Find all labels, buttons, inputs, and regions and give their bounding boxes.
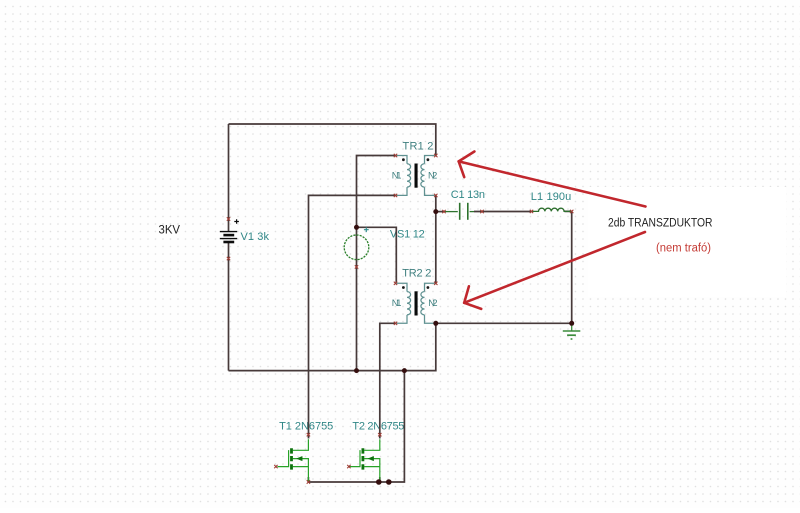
svg-text:TR2 2: TR2 2 xyxy=(402,268,431,280)
svg-text:3KV: 3KV xyxy=(159,225,181,237)
svg-text:N2: N2 xyxy=(428,298,437,308)
svg-text:VS1 12: VS1 12 xyxy=(390,228,425,240)
svg-text:C1 13n: C1 13n xyxy=(451,189,485,201)
svg-text:N1: N1 xyxy=(392,298,402,308)
svg-text:L1 190u: L1 190u xyxy=(531,191,572,203)
svg-text:2db TRANSZDUKTOR: 2db TRANSZDUKTOR xyxy=(608,217,713,229)
svg-text:(nem trafó): (nem trafó) xyxy=(656,243,711,255)
svg-text:N2: N2 xyxy=(428,170,437,180)
svg-text:T1 2N6755: T1 2N6755 xyxy=(279,421,333,433)
svg-text:V1 3k: V1 3k xyxy=(241,231,270,243)
svg-text:T2 2N6755: T2 2N6755 xyxy=(352,421,404,433)
svg-text:N1: N1 xyxy=(392,170,402,180)
svg-text:TR1 2: TR1 2 xyxy=(403,141,434,153)
